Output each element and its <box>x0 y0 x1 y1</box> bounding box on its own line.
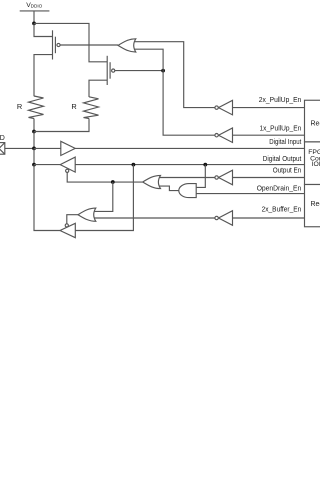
wire Q2 gate to node C <box>115 70 163 72</box>
wire bus node B to node D <box>33 132 35 149</box>
node G junction dot <box>203 163 207 167</box>
node A junction dot <box>32 22 36 26</box>
wire U7 output to node E <box>34 164 60 166</box>
and-gate U9 open-drain <box>179 184 196 198</box>
pad PAD <box>0 135 5 154</box>
resistor R1 <box>17 96 44 119</box>
node D junction dot <box>32 147 36 151</box>
register block pull-up config <box>305 100 320 142</box>
svg-text:R: R <box>71 102 76 111</box>
label FPGA Core IOB <box>308 149 320 168</box>
node B junction dot <box>32 130 36 134</box>
svg-text:PAD: PAD <box>0 135 5 142</box>
wire Digital Output from FPGA to U7 input <box>75 164 304 166</box>
inverter U4 2x_PullUp_En <box>215 100 233 115</box>
svg-text:2x_Buffer_En: 2x_Buffer_En <box>262 207 302 214</box>
resistor R2 <box>71 97 98 119</box>
wire R2 bottom to node B <box>34 119 89 132</box>
tri-state buffer U7 output driver 1x <box>60 157 75 172</box>
wire inverter U5 input from register <box>233 134 305 136</box>
wire R1 bottom to node B <box>33 119 35 132</box>
svg-text:R: R <box>17 102 22 111</box>
wire U8 output to or-gate U10 upper input <box>159 177 215 179</box>
wire bus node E to U13 output <box>34 165 60 231</box>
wire U9 output to U10 lower input <box>159 186 179 191</box>
tri-state buffer U13 output driver 2x <box>60 223 75 237</box>
node E junction dot <box>32 163 36 167</box>
svg-text:OpenDrain_En: OpenDrain_En <box>257 186 302 193</box>
transistor Q2 pull-up PMOS 1x <box>107 56 115 85</box>
FPGA core IOB block <box>305 142 320 185</box>
wire U3 upper input to inverter U4 output <box>134 42 215 108</box>
svg-text:Digital Input: Digital Input <box>269 139 301 146</box>
register block drive config <box>305 185 320 227</box>
or-gate U11 2x enable combine <box>78 208 96 221</box>
svg-text:Registers: Registers <box>311 120 320 127</box>
wire node G to and-gate U9 upper input <box>196 165 205 188</box>
wire U10 output to U7 enable <box>67 171 143 183</box>
wire U8 input from FPGA <box>233 177 305 179</box>
wire node D to input buffer U6 <box>34 147 61 149</box>
transistor Q1 pull-up PMOS 2x <box>53 30 61 59</box>
wire U13 input from node F <box>75 165 133 231</box>
wire U6 output Digital Input to FPGA <box>75 147 304 149</box>
svg-text:IOB: IOB <box>312 161 320 168</box>
inverter U8 Output En <box>215 170 233 185</box>
buffer U6 input buffer <box>61 141 75 155</box>
wire bus node D to node E <box>33 148 35 164</box>
svg-text:1x_PullUp_En: 1x_PullUp_En <box>260 126 302 133</box>
wire node A to Q2 source <box>34 23 107 61</box>
wire Q2 drain to R2 <box>89 80 107 97</box>
wire U11 output to U13 enable <box>67 215 78 226</box>
wire U12 input from register <box>233 217 305 219</box>
node F junction dot <box>132 163 136 167</box>
wire VDDIO to node A <box>33 11 35 24</box>
svg-text:2x_PullUp_En: 2x_PullUp_En <box>259 97 302 104</box>
or-gate U3 pull-up combine <box>118 39 136 52</box>
wire inverter U4 input from register <box>233 107 305 109</box>
wire PAD to node D <box>5 147 34 149</box>
wire U3 lower input through node C to inverter U5 output <box>134 49 215 135</box>
wire Q1 gate to or-gate U3 output <box>60 44 118 46</box>
svg-text:Output En: Output En <box>273 168 302 175</box>
inverter U5 1x_PullUp_En <box>215 128 233 143</box>
svg-text:Digital Output: Digital Output <box>263 156 302 163</box>
inverter U12 2x_Buffer_En <box>215 211 233 226</box>
svg-text:Registers: Registers <box>311 201 320 208</box>
node H junction dot <box>111 180 115 184</box>
power VDDIO <box>20 2 50 11</box>
wire Q1 drain to R1 <box>34 55 53 97</box>
node C junction dot <box>161 69 165 73</box>
or-gate U10 enable combine <box>143 175 161 188</box>
wire U12 output to U11 lower input <box>94 217 215 219</box>
wire node A to Q1 source <box>34 23 53 36</box>
wire OpenDrain_En from register to U9 lower input <box>196 193 304 195</box>
wire node H to or-gate U11 upper input <box>94 182 113 211</box>
svg-text:DDIO: DDIO <box>31 4 43 9</box>
